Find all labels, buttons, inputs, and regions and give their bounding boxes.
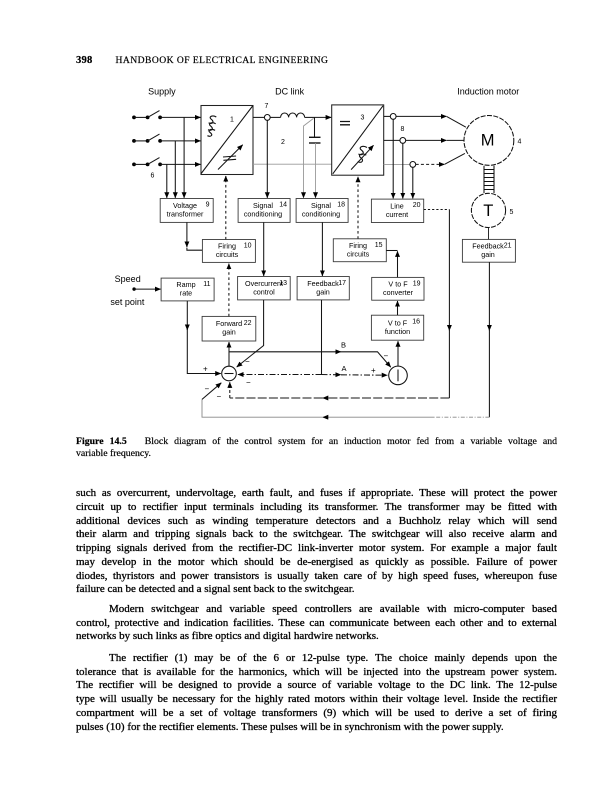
svg-text:19: 19 (413, 281, 421, 288)
rail A right arm into S2 (+) (322, 374, 388, 377)
box signal conditioning (18) (296, 199, 348, 223)
svg-text:22: 22 (244, 320, 252, 327)
wire tacho to feedback gain 21 (488, 228, 490, 240)
svg-text:circuits: circuits (347, 250, 370, 259)
wire firing circuits 15 to inverter (dashed) (357, 177, 359, 239)
svg-text:14: 14 (279, 202, 287, 209)
svg-text:−: − (246, 378, 251, 387)
svg-text:A: A (342, 364, 347, 373)
wire DC voltage sense to signal conditioning 18 (304, 118, 314, 197)
box voltage transformer (9) (160, 199, 213, 223)
inductor DC link (270, 113, 314, 117)
wire feedback gain 21 to rail C (488, 262, 490, 417)
svg-text:9: 9 (206, 202, 210, 209)
svg-text:2: 2 (281, 139, 285, 146)
svg-text:21: 21 (504, 242, 512, 249)
CT node on phase a (384, 114, 466, 128)
summing junction S1 (222, 366, 237, 381)
svg-text:20: 20 (413, 202, 421, 209)
motor shaft coupling (484, 166, 494, 193)
box V to F function (16) (371, 315, 423, 340)
supply phase line L1 with switch (132, 111, 200, 120)
box firing circuits (10) (202, 240, 255, 263)
page header (76, 55, 328, 66)
rectifier U1 (1) (201, 106, 253, 175)
wire signal conditioning 14 to overcurrent control (263, 222, 265, 276)
wire S1 output to forward gain 22 (228, 342, 230, 366)
box firing circuits (15) (333, 239, 386, 262)
box feedback gain (21) (462, 239, 515, 262)
capacitor C (DC link) (309, 117, 321, 143)
rail B to S1 bottom (-) (230, 382, 450, 398)
wire tap L2 to voltage transformer (174, 141, 176, 198)
svg-text:+: + (203, 365, 208, 374)
svg-text:circuits: circuits (216, 250, 239, 259)
svg-text:10: 10 (244, 243, 252, 250)
svg-text:Induction motor: Induction motor (457, 87, 519, 97)
induction motor M (4) (464, 115, 522, 165)
figure caption (76, 436, 557, 461)
svg-text:function: function (385, 327, 410, 336)
wire CT a to line current box (392, 119, 394, 198)
box V to F converter (19) (372, 277, 424, 300)
wire signal conditioning 18 to feedback gain 17 (321, 222, 323, 276)
svg-text:4: 4 (518, 139, 522, 146)
svg-text:17: 17 (338, 280, 346, 287)
wire node 7 to signal conditioning 14 (266, 120, 268, 198)
svg-text:−: − (205, 385, 210, 394)
gray DC negative rail (253, 163, 332, 165)
svg-text:1: 1 (230, 117, 234, 124)
svg-text:gain: gain (222, 328, 236, 337)
box signal conditioning (14) (238, 199, 290, 223)
box line current (20) (371, 199, 423, 222)
rail C to S1 (-) tacho feedback (202, 383, 489, 417)
svg-text:gain: gain (316, 288, 330, 297)
tachometer T (5) (471, 193, 513, 227)
svg-text:−: − (384, 352, 389, 361)
svg-text:T: T (483, 202, 493, 220)
svg-text:3: 3 (361, 115, 365, 122)
wire forward gain 22 to firing circuits 10 (dashed) (228, 264, 230, 317)
svg-text:B: B (341, 341, 346, 350)
wire CT c to line current box (412, 167, 414, 198)
svg-text:16: 16 (412, 318, 420, 325)
summing junction S2 (389, 366, 408, 385)
svg-text:conditioning: conditioning (302, 210, 340, 219)
rail A left arm into S1 (-) (238, 374, 322, 376)
svg-text:gain: gain (481, 250, 495, 259)
svg-text:M: M (481, 132, 495, 150)
wire V to F converter 19 to firing circuits 15 (386, 251, 397, 278)
svg-text:−: − (245, 357, 250, 366)
wire overcurrent 13 to S1 (-) (237, 300, 264, 367)
wire tap L1 to voltage transformer (183, 117, 185, 197)
box overcurrent control (13) (238, 277, 291, 300)
CT node on phase b (384, 138, 464, 144)
wire speed set point to ramp rate (132, 287, 160, 290)
svg-text:rate: rate (180, 289, 192, 298)
wire tap L3 to voltage transformer (166, 164, 168, 197)
svg-text:18: 18 (337, 202, 345, 209)
svg-text:Speed: Speed (115, 274, 141, 284)
wire capacitor lead to signal conditioning 18 (315, 143, 317, 198)
svg-text:DC link: DC link (275, 87, 305, 97)
wire feedback gain 17 to rail A (321, 300, 323, 375)
svg-text:7: 7 (265, 103, 269, 110)
box forward gain (22) (202, 316, 256, 341)
wire S2 output to V to F function 16 (397, 341, 399, 366)
svg-text:+: + (371, 366, 376, 375)
svg-text:6: 6 (151, 173, 155, 180)
svg-text:current: current (386, 210, 408, 219)
svg-text:11: 11 (203, 281, 210, 288)
supply phase line L3 with switch (132, 158, 200, 167)
svg-text:5: 5 (510, 209, 514, 216)
wire DC+ to inverter (315, 116, 332, 118)
svg-text:8: 8 (401, 126, 405, 133)
block diagram figure 14.5 (0, 0, 615, 430)
body text (76, 487, 557, 734)
wire VT 9 to firing circuits 10 (187, 222, 202, 250)
box ramp rate (11) (161, 278, 214, 301)
svg-text:set point: set point (110, 297, 145, 307)
svg-text:15: 15 (375, 242, 383, 249)
wire CT b to line current box (402, 143, 404, 198)
wire B branch to summing junction S2 (-) (229, 352, 391, 367)
wire line current 20 to rail B (424, 210, 450, 399)
wire firing circuits 10 to rectifier (dashed) (225, 176, 227, 240)
wire V to F function 16 to converter 19 (397, 301, 399, 315)
svg-text:transformer: transformer (167, 210, 204, 219)
node 7 (DC link current) (253, 103, 270, 120)
svg-text:control: control (253, 288, 275, 297)
box feedback gain (17) (297, 277, 349, 300)
svg-text:converter: converter (383, 288, 414, 297)
supply phase line L2 with switch (132, 134, 200, 143)
svg-text:conditioning: conditioning (244, 210, 282, 219)
svg-text:Supply: Supply (148, 87, 176, 97)
svg-text:−: − (217, 392, 222, 401)
CT node on phase c (dashed) (384, 153, 465, 167)
inverter U2 (3) (332, 105, 384, 175)
svg-text:13: 13 (279, 280, 287, 287)
wire ramp rate 11 to summing junction S1 (+) (187, 301, 221, 374)
